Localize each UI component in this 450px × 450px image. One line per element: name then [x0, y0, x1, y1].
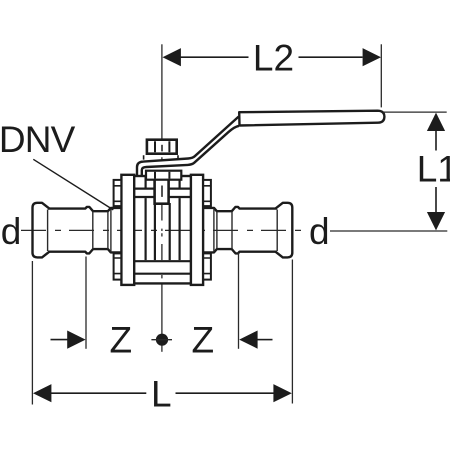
valve stem block [155, 176, 169, 204]
dimension L left extension line [31, 261, 33, 405]
bolt head bottom left [114, 253, 122, 279]
dimension L2 right extension line [380, 44, 382, 107]
DNV leader line [33, 159, 113, 210]
handle collar and shaft outer line [137, 117, 239, 176]
valve body vertical contour lines [146, 177, 180, 261]
dimension Z left extension line [85, 257, 87, 349]
svg-text:Z: Z [109, 320, 132, 361]
centerline vertical valve axis [161, 44, 163, 352]
stem flange plate [146, 171, 181, 180]
svg-text:Z: Z [191, 320, 214, 361]
left flange plate [121, 175, 134, 285]
dimension line L [51, 392, 274, 394]
dimension L2 arrow left [163, 48, 181, 66]
dimension Z right leader and arrow [258, 339, 273, 341]
dimension Z right extension line [238, 253, 240, 349]
svg-text:L: L [151, 374, 172, 415]
right press fitting socket outline [203, 203, 292, 258]
svg-text:d: d [309, 211, 330, 252]
top bolt bar between flanges [134, 188, 191, 199]
dimension line L1 [435, 131, 437, 213]
right flange plate [191, 175, 203, 285]
valve body top and bottom edges [134, 176, 191, 283]
bolt head top left [114, 180, 122, 206]
dimension L1 top extension line [383, 111, 447, 113]
dimension Z left leader and arrow [51, 339, 68, 341]
svg-text:DNV: DNV [0, 119, 76, 160]
dimension L arrow left [33, 384, 51, 402]
dimension L1 arrow bottom [427, 212, 445, 230]
center mark dot at valve axis [151, 334, 172, 346]
handle collar and shaft inner line [142, 126, 239, 176]
dimension L right extension line [291, 260, 293, 404]
svg-text:L1: L1 [417, 149, 450, 190]
bolt head bottom right [203, 253, 211, 279]
stem nut [147, 140, 177, 154]
bottom bolt bar between flanges [134, 260, 191, 275]
right press fitting detail lines [214, 208, 277, 251]
dimension line L2 [180, 56, 363, 58]
dimension L arrow right [273, 384, 291, 402]
left press fitting socket outline [33, 203, 122, 258]
centerline horizontal pipe axis d-d [21, 229, 447, 232]
washer under nut [144, 155, 178, 159]
bolt head top right [203, 180, 211, 206]
left press fitting detail lines [48, 208, 111, 251]
dimension L2 arrow right [363, 48, 381, 66]
svg-text:L2: L2 [253, 37, 294, 78]
svg-text:d: d [1, 211, 22, 252]
dimension L1 arrow top [427, 113, 445, 131]
handle grip bar [239, 111, 384, 126]
